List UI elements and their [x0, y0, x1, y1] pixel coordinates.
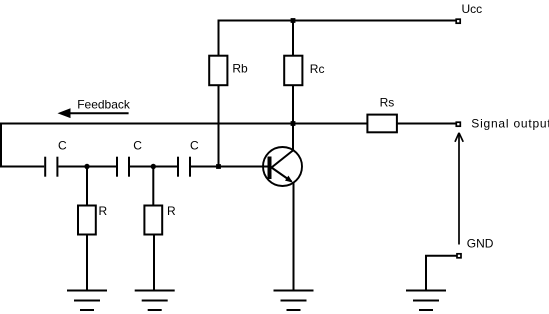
ground G4: [406, 291, 446, 311]
svg-text:C: C: [190, 138, 199, 152]
wire: cap row segment 3 (to base): [191, 166, 268, 168]
node: R2 top junction: [151, 164, 156, 169]
wire: rail to Rc: [292, 20, 294, 56]
svg-text:R: R: [167, 204, 176, 218]
svg-text:C: C: [133, 138, 142, 152]
arrow: feedback direction: [58, 108, 129, 118]
svg-text:R: R: [99, 204, 108, 218]
wire: R1 to ground: [86, 235, 88, 291]
terminal Signal output: [456, 122, 460, 126]
node: junction Rc top: [291, 18, 296, 23]
svg-text:Rs: Rs: [380, 96, 395, 110]
svg-text:Rc: Rc: [310, 62, 325, 76]
arrow: output reference pointer: [455, 133, 463, 245]
wire: rail to Rb: [218, 20, 220, 56]
node: base junction: [216, 164, 221, 169]
terminal GND: [457, 254, 461, 258]
wire: cap row segment 2: [130, 166, 177, 168]
wire: collector junction to transistor: [292, 124, 294, 151]
wire: emitter to ground: [293, 182, 295, 290]
wire: cap row segment 0: [0, 166, 44, 168]
resistor Rb: [209, 56, 227, 85]
svg-text:Ucc: Ucc: [462, 2, 483, 16]
ground G1: [67, 291, 107, 311]
node: collector junction: [291, 121, 296, 126]
svg-text:Feedback: Feedback: [77, 97, 131, 111]
svg-text:Rb: Rb: [232, 61, 248, 75]
capacitor C1: [45, 157, 57, 177]
ground G3: [274, 291, 314, 311]
wire: cap row segment 1: [58, 166, 116, 168]
resistor R2: [144, 206, 162, 235]
svg-text:GND: GND: [467, 236, 494, 250]
capacitor C2: [117, 157, 129, 177]
wire: Rs to output terminal: [397, 123, 456, 125]
resistor R1: [78, 206, 96, 235]
svg-text:Signal output: Signal output: [471, 117, 549, 131]
transistor Q1: [263, 147, 302, 186]
resistor Rs: [367, 115, 397, 133]
ground G2: [135, 291, 175, 311]
wire: left edge drop: [0, 123, 2, 167]
wire: R2 to ground: [153, 235, 155, 291]
node: R1 top junction: [84, 164, 89, 169]
wire: Rb to base node: [218, 86, 220, 165]
svg-text:C: C: [58, 138, 67, 152]
capacitor C3: [178, 157, 190, 177]
wire: R1 top stub: [86, 167, 88, 206]
resistor Rc: [284, 56, 302, 85]
terminal Ucc: [456, 19, 460, 23]
wire: Rc to collector node: [292, 86, 294, 124]
wire: GND terminal to ground: [426, 256, 457, 290]
wire: R2 top stub: [152, 167, 154, 206]
wire: output/feedback line left: [0, 123, 367, 125]
wire: Vcc top rail: [218, 20, 457, 22]
